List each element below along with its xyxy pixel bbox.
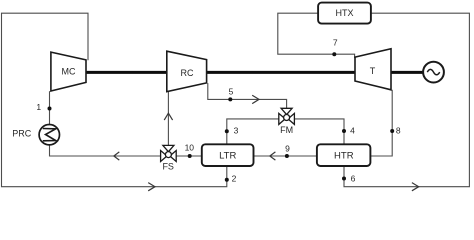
node 5 — [228, 97, 232, 101]
recuperator HTR — [317, 144, 371, 166]
arrow on bottom-left wire pointing right — [148, 183, 155, 191]
svg-text:8: 8 — [396, 126, 401, 136]
node 6 — [342, 177, 346, 181]
arrow on bottom-right wire pointing right — [412, 183, 419, 191]
wire HTR bottom to HTX via right border (node 6 path) — [344, 13, 469, 187]
wire FS to LTR (node 10 path) — [176, 155, 202, 157]
wire FS to RC inlet — [167, 91, 169, 147]
svg-text:1: 1 — [36, 102, 41, 112]
svg-text:RC: RC — [181, 68, 194, 78]
svg-text:PRC: PRC — [12, 129, 32, 139]
turbine T — [355, 49, 391, 90]
node 2 — [225, 178, 229, 182]
arrow on HTR-to-LTR wire pointing left — [270, 152, 276, 160]
svg-text:2: 2 — [232, 174, 237, 184]
compressor RC — [167, 51, 207, 91]
valve FM (flow merge, 3-way) — [279, 108, 295, 124]
compressor MC — [51, 52, 86, 91]
svg-text:LTR: LTR — [219, 150, 236, 161]
arrow on FS-to-PRC wire pointing left — [114, 152, 120, 160]
svg-text:6: 6 — [351, 174, 356, 184]
node 9 — [285, 154, 289, 158]
wire PRC to MC (node 1 path) — [49, 91, 51, 124]
svg-text:7: 7 — [333, 38, 338, 48]
wire FM to HTR top (node 4 path) — [294, 119, 344, 144]
generator circle — [423, 62, 444, 83]
node 4 — [342, 129, 346, 133]
svg-text:10: 10 — [185, 143, 195, 153]
svg-text:FS: FS — [162, 162, 174, 172]
svg-text:FM: FM — [280, 125, 293, 135]
svg-text:HTR: HTR — [334, 150, 354, 161]
svg-text:3: 3 — [234, 126, 239, 136]
svg-text:HTX: HTX — [336, 8, 354, 18]
wire HTR to LTR (node 9 path) — [254, 155, 317, 157]
precooler PRC circle — [39, 125, 59, 145]
svg-text:MC: MC — [62, 67, 76, 77]
svg-text:T: T — [370, 66, 376, 76]
valve FS (flow split, 3-way) — [161, 145, 177, 161]
heat exchanger HTX — [318, 3, 371, 24]
shaft RC-T — [206, 71, 356, 74]
wire PRC bottom stub — [50, 145, 161, 156]
node 10 — [188, 154, 192, 158]
node 1 — [48, 107, 52, 111]
arrow on FS-to-RC wire pointing up — [164, 113, 172, 120]
wire MC outlet loop: MC top, left border, bottom to LTR (node 2 path) — [2, 13, 227, 187]
svg-text:9: 9 — [285, 143, 290, 153]
wire RC outlet to FM top (node 5 path) — [208, 83, 287, 109]
node 7 — [332, 52, 336, 56]
shaft T-generator — [391, 71, 424, 74]
svg-text:5: 5 — [229, 87, 234, 97]
arrow on RC outlet wire pointing right — [252, 95, 259, 103]
recuperator LTR — [202, 144, 254, 166]
node 8 — [390, 129, 394, 133]
shaft MC-RC — [86, 71, 168, 74]
svg-text:4: 4 — [350, 126, 355, 136]
wire HTX to turbine inlet (node 7 path) — [278, 13, 355, 58]
wire turbine outlet to HTR (node 8 path) — [370, 90, 392, 156]
node 3 — [225, 129, 229, 133]
wire LTR top to FM (node 3 path) — [227, 119, 279, 144]
